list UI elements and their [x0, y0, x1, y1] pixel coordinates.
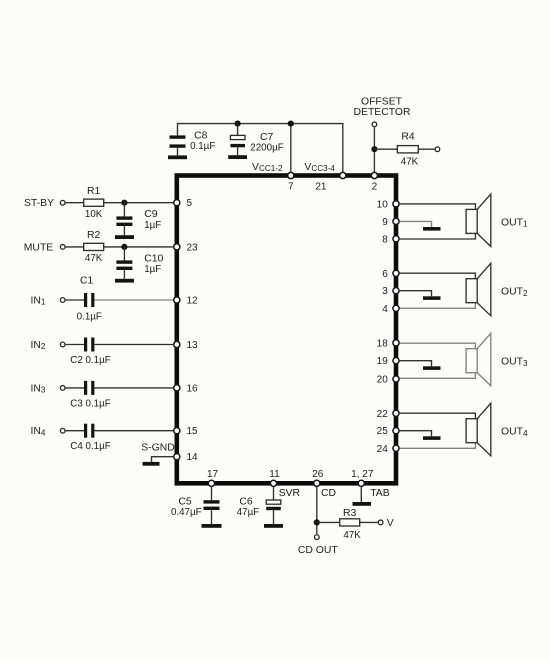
node IN1 label [31, 295, 46, 306]
svg-text:DETECTOR: DETECTOR [354, 107, 411, 118]
svg-text:C1: C1 [80, 276, 94, 287]
svg-text:C3 0.1µF: C3 0.1µF [70, 398, 111, 409]
capacitor C9 1uF [116, 209, 161, 235]
svg-text:CD: CD [321, 488, 336, 499]
svg-text:8: 8 [382, 234, 388, 245]
svg-text:C2 0.1µF: C2 0.1µF [70, 355, 111, 366]
svg-text:IN3: IN3 [31, 383, 46, 394]
node ST-BY label [24, 198, 54, 209]
svg-text:5: 5 [187, 198, 193, 209]
pin 17 [207, 469, 219, 487]
svg-text:0.1µF: 0.1µF [77, 312, 102, 323]
svg-text:R1: R1 [87, 186, 101, 197]
wire pin bottom to speaker OUT2 [400, 303, 476, 309]
node junction R2/C10 [121, 244, 127, 250]
pin 18 [377, 338, 399, 349]
wire pin middle to ground OUT3 [400, 361, 432, 367]
svg-text:R2: R2 [87, 230, 101, 241]
pin 15 [174, 426, 198, 437]
ground OUT1 [423, 227, 441, 231]
svg-text:C7: C7 [260, 132, 274, 143]
svg-text:1µF: 1µF [144, 264, 161, 275]
wire pin 17 to C5 [211, 486, 213, 501]
svg-text:C6: C6 [239, 497, 253, 508]
terminal CD OUT [314, 535, 319, 540]
wire pin 11 to C6 [273, 486, 275, 500]
wire offset detector to pin 2 [373, 127, 375, 172]
capacitor C8 0.1uF [170, 131, 216, 156]
net label Vcc3-4 [304, 162, 335, 173]
node IN4 label [31, 426, 46, 437]
wire rail to pin 7 [290, 124, 292, 173]
pin 3 [382, 286, 399, 297]
terminal OFFSET DETECTOR [372, 122, 377, 127]
node junction R1/C9 [121, 200, 127, 206]
net label SVR [279, 488, 301, 499]
wire pin top to speaker OUT2 [400, 273, 476, 279]
wire R4 to terminal [418, 148, 434, 150]
ground C6 [264, 524, 283, 528]
svg-text:13: 13 [187, 340, 199, 351]
pin 9 [382, 217, 399, 228]
wire junction to C10 [123, 247, 125, 261]
pin 25 [377, 426, 399, 437]
svg-text:24: 24 [377, 444, 389, 455]
net label CD [321, 488, 336, 499]
svg-text:MUTE: MUTE [24, 242, 54, 253]
svg-text:OUT2: OUT2 [501, 287, 528, 298]
ground C10 [115, 279, 134, 283]
speaker OUT3 [466, 333, 528, 386]
node OFFSET DETECTOR label [354, 96, 411, 118]
wire pin bottom to speaker OUT1 [400, 233, 476, 239]
node S-GND label [141, 443, 174, 454]
wire IN1 to C1 [66, 299, 84, 301]
svg-text:47K: 47K [343, 530, 361, 541]
wire pin 14 to ground [152, 457, 174, 462]
pin 2 [371, 172, 377, 192]
svg-text:18: 18 [377, 338, 389, 349]
capacitor C1 0.1uF [77, 276, 102, 323]
svg-text:OUT3: OUT3 [501, 357, 528, 368]
svg-text:4: 4 [382, 304, 388, 315]
svg-text:7: 7 [288, 181, 294, 192]
svg-text:47µF: 47µF [237, 507, 260, 518]
resistor R1 10K [84, 186, 104, 220]
speaker OUT4 [466, 403, 528, 456]
svg-text:12: 12 [187, 296, 199, 307]
ground S-GND [143, 462, 160, 466]
svg-text:V: V [387, 518, 394, 529]
pin 12 [174, 296, 198, 307]
speaker OUT1 [466, 194, 528, 247]
pin 11 [269, 469, 280, 487]
ground OUT2 [423, 296, 441, 300]
node junction R4 branch [371, 146, 377, 152]
wire pin top to speaker OUT3 [400, 343, 476, 349]
capacitor C5 0.47uF [171, 497, 220, 524]
svg-text:S-GND: S-GND [141, 443, 174, 454]
node junction rail/pin7 [288, 121, 294, 127]
svg-text:VCC1-2: VCC1-2 [252, 162, 283, 173]
capacitor C3 0.1uF [70, 381, 111, 409]
pin 23 [174, 242, 198, 253]
svg-text:IN4: IN4 [31, 426, 46, 437]
capacitor C6 47uF [237, 497, 281, 524]
svg-text:0.47µF: 0.47µF [171, 507, 202, 518]
svg-text:19: 19 [377, 356, 389, 367]
svg-text:CD OUT: CD OUT [298, 545, 338, 556]
wire pin bottom to speaker OUT3 [400, 373, 476, 379]
ground OUT4 [423, 436, 441, 440]
wire C1 to IC [94, 299, 173, 301]
svg-text:IN1: IN1 [31, 295, 46, 306]
net label Vcc1-2 [252, 162, 283, 173]
ground C8 [168, 155, 187, 159]
svg-text:OUT4: OUT4 [501, 427, 528, 438]
pin 19 [377, 356, 399, 367]
wire pin 26 CD branch [316, 486, 318, 535]
terminal ST-BY [60, 200, 65, 205]
ground C5 [202, 524, 222, 528]
svg-text:14: 14 [187, 452, 199, 463]
wire pin middle to ground OUT4 [400, 431, 432, 437]
pin 20 [377, 375, 399, 386]
wire IN4 to C4 [66, 430, 84, 432]
svg-text:22: 22 [377, 409, 389, 420]
IC U1 body (power amplifier) [177, 176, 396, 484]
pin 13 [174, 340, 198, 351]
pin 14 [174, 452, 198, 463]
svg-text:17: 17 [207, 469, 219, 480]
wire Vcc supply rail [178, 124, 343, 173]
pin 10 [377, 199, 399, 210]
svg-text:ST-BY: ST-BY [24, 198, 54, 209]
pin 8 [382, 234, 399, 245]
wire C4 to IC [94, 430, 173, 432]
terminal IN3 [60, 386, 65, 391]
svg-text:9: 9 [382, 217, 388, 228]
svg-text:C5: C5 [178, 497, 192, 508]
wire pin top to speaker OUT4 [400, 413, 476, 419]
svg-text:25: 25 [377, 426, 389, 437]
terminal IN4 [60, 428, 65, 433]
pin 24 [377, 444, 399, 455]
svg-text:C9: C9 [144, 209, 158, 220]
node IN3 label [31, 383, 46, 394]
wire C7 stub [237, 124, 239, 136]
wire pin 1,27 to ground [360, 486, 362, 502]
svg-text:VCC3-4: VCC3-4 [304, 162, 335, 173]
capacitor C7 2200uF [230, 132, 283, 155]
pin 26 [312, 469, 324, 487]
svg-text:1, 27: 1, 27 [351, 469, 374, 480]
svg-text:2: 2 [372, 181, 378, 192]
node IN2 label [31, 340, 46, 351]
svg-text:TAB: TAB [370, 488, 390, 499]
wire pin bottom to speaker OUT4 [400, 443, 476, 449]
svg-text:15: 15 [187, 426, 199, 437]
svg-text:16: 16 [187, 383, 199, 394]
node junction rail/C7 [235, 121, 241, 127]
svg-text:C10: C10 [144, 253, 163, 264]
svg-text:21: 21 [315, 181, 327, 192]
svg-text:IN2: IN2 [31, 340, 46, 351]
wire IN2 to C2 [66, 344, 84, 346]
wire junction to C9 [123, 203, 125, 217]
svg-text:3: 3 [382, 286, 388, 297]
pin 6 [382, 269, 399, 280]
pin 4 [382, 304, 399, 315]
pin 1, 27 [351, 469, 374, 487]
wire junction to R3 [317, 521, 340, 523]
speaker OUT2 [466, 263, 528, 316]
wire MUTE to R2 [66, 246, 84, 248]
pin 22 [377, 409, 399, 420]
ground C7 [228, 155, 247, 159]
node junction CD/R3 [314, 519, 320, 525]
svg-text:0.1µF: 0.1µF [190, 141, 215, 152]
wire C2 to IC [94, 344, 173, 346]
node MUTE label [24, 242, 54, 253]
resistor R4 47K [397, 132, 418, 168]
svg-text:SVR: SVR [279, 488, 301, 499]
wire R3 to V terminal [360, 521, 378, 523]
svg-text:2200µF: 2200µF [250, 142, 283, 153]
svg-text:10K: 10K [85, 209, 103, 220]
wire R2 to pin 23 [104, 246, 174, 248]
resistor R2 47K [84, 230, 104, 264]
svg-text:20: 20 [377, 375, 389, 386]
wire ST-BY to R1 [66, 202, 84, 204]
terminal IN1 [60, 298, 65, 303]
svg-text:26: 26 [312, 469, 324, 480]
svg-text:23: 23 [187, 242, 199, 253]
capacitor C4 0.1uF [70, 424, 111, 452]
wire C3 to IC [94, 387, 173, 389]
node CD OUT label [298, 545, 338, 556]
wire IN3 to C3 [66, 387, 84, 389]
wire R1 to pin 5 [104, 202, 174, 204]
ground C9 [115, 235, 134, 239]
svg-text:11: 11 [269, 469, 280, 480]
svg-text:10: 10 [377, 199, 389, 210]
terminal V [378, 518, 394, 529]
pin 21 [315, 172, 346, 192]
ground TAB [353, 502, 372, 506]
svg-text:1µF: 1µF [144, 220, 161, 231]
svg-text:R3: R3 [343, 508, 357, 519]
net label TAB [370, 488, 390, 499]
wire junction to R4 [374, 148, 397, 150]
svg-text:OFFSET: OFFSET [361, 96, 403, 107]
pin 5 [174, 198, 193, 209]
pin 16 [174, 383, 198, 394]
terminal MUTE [60, 245, 65, 250]
svg-text:R4: R4 [401, 132, 415, 143]
capacitor C10 1uF [116, 253, 163, 278]
terminal R4 right [435, 147, 440, 152]
svg-text:47K: 47K [85, 253, 103, 264]
pin 7 [288, 172, 294, 192]
wire pin middle to ground OUT2 [400, 291, 432, 297]
svg-text:OUT1: OUT1 [501, 217, 528, 228]
resistor R3 47K [340, 508, 362, 541]
svg-text:6: 6 [382, 269, 388, 280]
ground OUT3 [423, 366, 441, 370]
wire pin top to speaker OUT1 [400, 204, 476, 210]
wire pin middle to ground OUT1 [400, 221, 432, 227]
svg-text:47K: 47K [401, 156, 419, 167]
svg-text:C4 0.1µF: C4 0.1µF [70, 441, 111, 452]
capacitor C2 0.1uF [70, 338, 111, 366]
terminal IN2 [60, 342, 65, 347]
